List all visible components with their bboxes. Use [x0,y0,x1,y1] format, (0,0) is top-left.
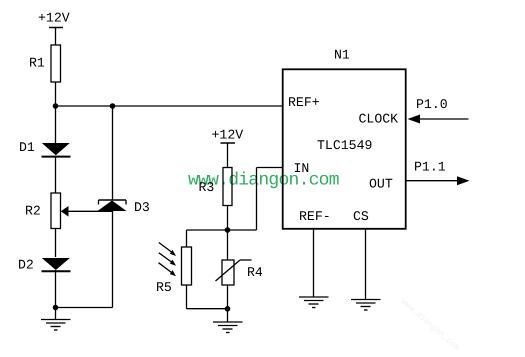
svg-text:R1: R1 [29,56,45,71]
svg-text:R2: R2 [25,204,41,219]
svg-text:REF+: REF+ [288,95,320,110]
svg-text:OUT: OUT [369,177,393,192]
svg-text:R5: R5 [156,280,172,295]
svg-text:CS: CS [353,209,369,224]
svg-text:D3: D3 [134,200,150,215]
svg-text:P1.0: P1.0 [416,97,448,112]
svg-text:+12V: +12V [212,128,244,143]
svg-text:P1.1: P1.1 [414,160,446,175]
svg-text:REF-: REF- [299,209,331,224]
svg-text:TLC1549: TLC1549 [317,138,372,153]
svg-text:R4: R4 [247,265,263,280]
svg-text:www.diangon.com: www.diangon.com [188,170,339,190]
svg-text:D1: D1 [19,140,35,155]
svg-text:D2: D2 [18,258,34,273]
svg-text:N1: N1 [334,48,350,63]
svg-text:CLOCK: CLOCK [359,112,399,127]
svg-text:+12V: +12V [38,11,70,26]
